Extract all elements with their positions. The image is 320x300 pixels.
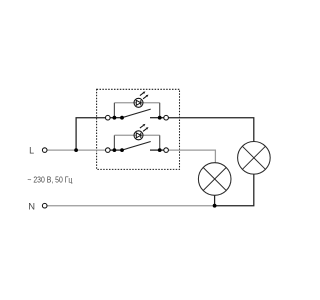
- svg-text:~ 230 В, 50 Гц: ~ 230 В, 50 Гц: [27, 175, 73, 185]
- svg-text:N: N: [28, 201, 35, 212]
- svg-text:L: L: [29, 145, 34, 155]
